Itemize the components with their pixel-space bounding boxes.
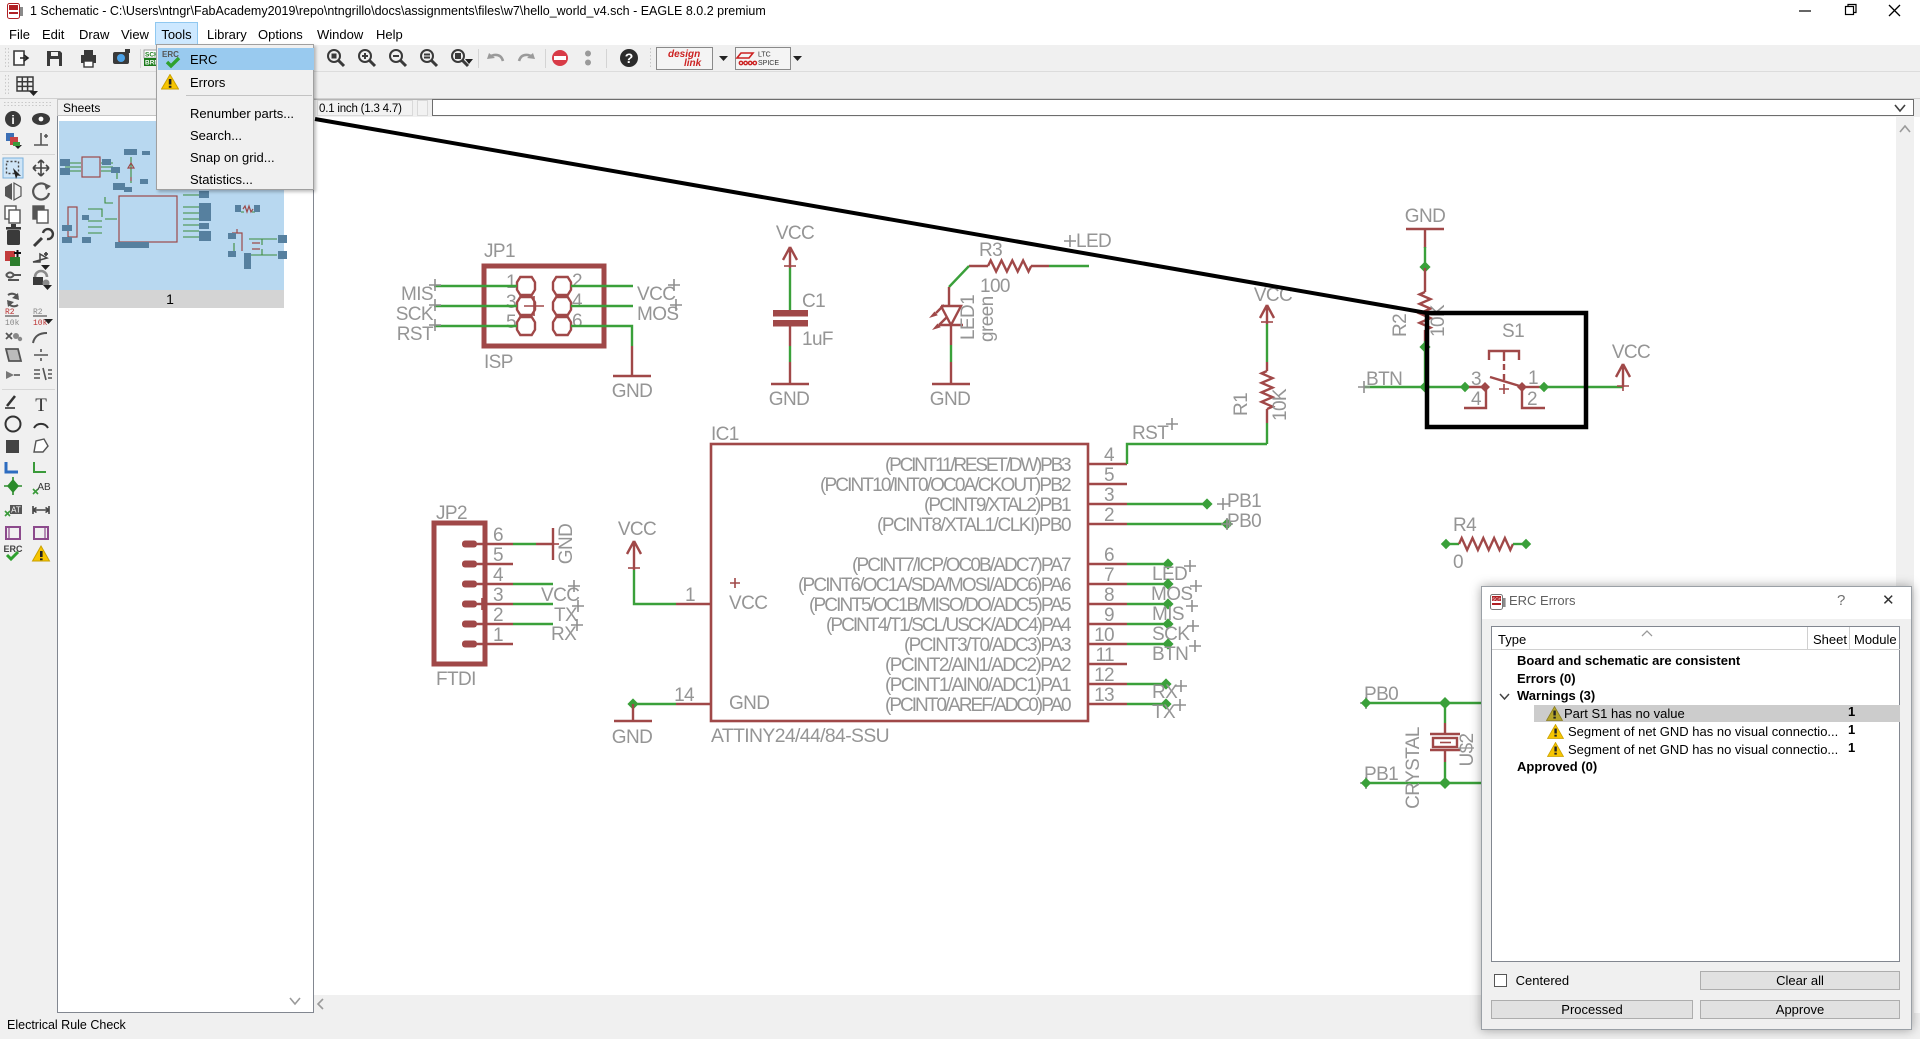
resistor R1 with VCC (1231, 285, 1292, 444)
svg-text:(PCINT5/OC1B/MISO/DO/ADC5)PA5: (PCINT5/OC1B/MISO/DO/ADC5)PA5 (809, 595, 1071, 616)
r14 line / text (5, 396, 15, 408)
label MOS (1151, 580, 1202, 605)
JP1 origin cross (524, 296, 544, 316)
wire PB1 net (pin3) (1127, 503, 1207, 505)
junction BTN (1162, 638, 1173, 649)
svg-text:10K: 10K (1428, 304, 1449, 337)
svg-text:VCC: VCC (776, 223, 814, 244)
svg-text:R3: R3 (979, 240, 1002, 261)
svg-text:SCK: SCK (396, 304, 434, 325)
r4 mirror / rotate (5, 183, 21, 200)
svg-text:4: 4 (1104, 445, 1115, 466)
IC U1: IC1 ATTINY24/44/84-SSU (674, 424, 1127, 747)
wire SCK net (pin9) (1127, 623, 1168, 625)
wire R2 to BTN net (1424, 341, 1426, 387)
svg-text:MIS: MIS (401, 284, 433, 305)
svg-text:4: 4 (493, 565, 504, 586)
svg-text:RX: RX (551, 624, 577, 645)
wire MOS net (pin7) (1127, 583, 1168, 585)
r15 circle / arc (6, 417, 21, 432)
open (14, 51, 28, 65)
sch/brd (144, 50, 159, 67)
junction PB0/crystal (1439, 697, 1451, 709)
svg-text:R2: R2 (1390, 314, 1411, 337)
svg-text:(PCINT2/AIN1/ADC2)PA2: (PCINT2/AIN1/ADC2)PA2 (885, 655, 1071, 676)
svg-text:CRYSTAL: CRYSTAL (1403, 727, 1424, 809)
junction MIS (1162, 598, 1173, 609)
label RST (net) (1132, 418, 1178, 444)
r11 smash / miter (6, 333, 22, 341)
svg-text:6: 6 (572, 311, 582, 332)
svg-text:GND: GND (729, 693, 769, 714)
svg-text:4: 4 (572, 291, 583, 312)
ground GND (LED1) (930, 362, 970, 410)
svg-text:BTN: BTN (1366, 369, 1402, 390)
junction TX (1160, 698, 1171, 709)
svg-text:13: 13 (1094, 685, 1114, 706)
wire R3 left to LED1 (949, 266, 969, 287)
svg-text:BTN: BTN (1152, 644, 1188, 665)
VCC symbol (IC1 pin1) (618, 519, 656, 570)
IC1 pin 14 stub (676, 703, 711, 705)
junction LED (1162, 558, 1173, 569)
annotation line (315, 119, 1427, 313)
LED LED1 (929, 287, 998, 345)
svg-text:2: 2 (493, 605, 503, 626)
svg-text:ISP: ISP (484, 352, 513, 373)
junction PB1 left (1361, 778, 1371, 788)
label LED (net) (1064, 231, 1111, 252)
r19 attribute / dimension (5, 505, 22, 516)
JP1 pin 6 pad (553, 317, 571, 335)
junction RX (1160, 678, 1171, 689)
ground GND (JP1) (612, 346, 652, 402)
junction PB1/crystal (1439, 777, 1451, 789)
svg-text:R1: R1 (1231, 393, 1252, 416)
wire PB0 net (1366, 702, 1481, 704)
LTC SPICE button (736, 48, 791, 70)
svg-text:MOS: MOS (637, 304, 678, 325)
svg-text:0: 0 (1453, 552, 1463, 573)
label RST (397, 319, 441, 345)
wire R3 right to LED net (1049, 265, 1089, 267)
help (620, 49, 638, 67)
svg-text:GND: GND (612, 381, 652, 402)
connector JP2 FTDI (434, 503, 513, 690)
resistor R4 (1441, 515, 1531, 573)
label RX (pin12) (1152, 680, 1187, 703)
wire S1 to VCC (1548, 386, 1623, 388)
S1 left contact (1480, 382, 1490, 392)
r8 pinswap / lock (6, 273, 21, 281)
svg-text:9: 9 (1104, 605, 1114, 626)
svg-text:2: 2 (1527, 389, 1537, 410)
r13 invoke / eqn (6, 371, 20, 379)
junction PB1 (1201, 498, 1212, 509)
stop (552, 50, 568, 66)
wire BTN net (pin10) (1127, 643, 1168, 645)
svg-text:PB1: PB1 (1227, 491, 1261, 512)
junction (IC1 pin14 gnd) (627, 698, 638, 709)
r3 select (highlighted) / move (3, 158, 23, 178)
undo/redo (487, 53, 535, 61)
junction SCK (1162, 618, 1173, 629)
svg-text:JP1: JP1 (484, 241, 515, 262)
sheets panel scroll down arrow (284, 992, 306, 1010)
zoom icons (328, 50, 468, 66)
svg-text:GND: GND (1405, 206, 1445, 227)
label MOS (637, 299, 682, 325)
svg-text:R4: R4 (1453, 515, 1477, 536)
ground GND (C1) (769, 362, 809, 410)
IC1 left internal labels (730, 578, 740, 588)
wire RST net (pin4 to R1) (1127, 444, 1267, 464)
svg-text:S1: S1 (1502, 321, 1524, 342)
svg-text:3: 3 (506, 292, 516, 313)
IC1 pin 1 stub (676, 603, 711, 605)
svg-text:LED1: LED1 (958, 295, 979, 340)
label PB1 (1217, 491, 1261, 512)
wire VCC to C1 (789, 268, 791, 310)
label SCK (396, 299, 441, 325)
svg-text:GND: GND (556, 524, 577, 564)
wire JP2 pin4 to VCC label (513, 583, 553, 585)
svg-text:(PCINT1/AIN0/ADC1)PA1: (PCINT1/AIN0/ADC1)PA1 (885, 675, 1071, 696)
label BTN (net) (1358, 369, 1402, 393)
svg-text:C1: C1 (802, 291, 825, 312)
svg-text:10: 10 (1094, 625, 1114, 646)
wire JP1 pin2 to VCC label (571, 285, 633, 287)
r17 bus / net (6, 462, 18, 472)
wire VCC to IC1 pin1 (634, 570, 676, 604)
r16 rect / polygon (6, 440, 19, 453)
label TX (pin13) (1152, 699, 1186, 723)
capacitor C1 group: VCC symbol (776, 223, 814, 268)
JP1 pin 1 pad (517, 277, 535, 295)
svg-text:RST: RST (397, 324, 434, 345)
svg-text:SCH: SCH (1492, 596, 1502, 601)
power VCC (S1) (1612, 342, 1650, 391)
wire crystal bottom (1444, 762, 1446, 783)
image/camera (113, 49, 130, 64)
annotation rectangle (around S1) (1427, 313, 1586, 427)
S1 pin 1 connection (1539, 382, 1549, 392)
IC1 right pin stubs 4,5,3,2,6..13 (1088, 464, 1127, 704)
svg-text:3: 3 (1104, 485, 1114, 506)
crystal U$2 group (1360, 684, 1481, 809)
svg-text:(PCINT3/T0/ADC3)PA3: (PCINT3/T0/ADC3)PA3 (904, 635, 1071, 656)
junction (R2 bottom) (1419, 341, 1430, 352)
svg-text:PB0: PB0 (1227, 511, 1261, 532)
IC1 body (711, 444, 1088, 721)
wire GND to IC1 pin14 (633, 703, 676, 705)
r20 frame / frame2 (6, 527, 20, 539)
r5 copy / paste (5, 206, 20, 223)
r1 info / eye (5, 111, 21, 127)
label MIS (401, 279, 441, 305)
wire TX net (pin13) (1127, 703, 1166, 705)
JP1 pin 5 pad (517, 317, 535, 335)
svg-text:(PCINT6/OC1A/SDA/MOSI/ADC6)PA6: (PCINT6/OC1A/SDA/MOSI/ADC6)PA6 (798, 575, 1071, 596)
r12 split / optimize (6, 349, 21, 361)
junction (GND-R2) (1419, 261, 1430, 272)
svg-text:ERC: ERC (162, 50, 179, 59)
JP1 pin 4 pad (553, 297, 571, 315)
wire GND to R2 (1424, 247, 1426, 268)
wire PB0 net (pin2) (1127, 523, 1227, 525)
junction PB0 left (1361, 698, 1371, 708)
svg-text:5: 5 (506, 312, 516, 333)
JP1 pin 2 pad (553, 277, 571, 295)
wire JP2 pin6 to GND (513, 543, 536, 545)
wire JP2 pin3 to TX label (513, 603, 553, 605)
wire BTN net horizontal (1364, 386, 1461, 388)
svg-text:VCC: VCC (618, 519, 656, 540)
r10 name / value (5, 308, 20, 328)
svg-text:GND: GND (769, 389, 809, 410)
svg-text:VCC: VCC (637, 284, 675, 305)
JP2 body (434, 523, 485, 664)
wire VCC to R1 (1266, 324, 1268, 362)
svg-text:LED: LED (1076, 231, 1111, 252)
svg-text:10K: 10K (1270, 388, 1291, 421)
label PB0 (1221, 511, 1261, 532)
svg-text:100: 100 (980, 276, 1010, 297)
JP2 pin flags (462, 541, 477, 548)
label TX (JP2) (554, 600, 584, 626)
svg-text:6: 6 (1104, 545, 1114, 566)
svg-text:(PCINT7/ICP/OC0B/ADC7)PA7: (PCINT7/ICP/OC0B/ADC7)PA7 (852, 555, 1071, 576)
r21 ERC / errors (3, 544, 23, 559)
wire MIS to JP1 pin1 (434, 285, 517, 287)
label LED (pin6) (1152, 560, 1196, 585)
svg-text:1: 1 (506, 272, 516, 293)
r9 replace (7, 293, 19, 307)
print (81, 50, 96, 67)
svg-text:2: 2 (572, 271, 582, 292)
R1 body (1262, 362, 1273, 423)
JP1 body (484, 266, 604, 346)
switch S1 (1460, 321, 1549, 410)
wire SCK to JP1 pin3 (434, 305, 517, 307)
svg-text:3: 3 (493, 585, 503, 606)
svg-text:14: 14 (674, 685, 695, 706)
svg-text:(PCINT11/RESET/DW)PB3: (PCINT11/RESET/DW)PB3 (885, 455, 1071, 476)
JP1 pin 3 pad (517, 297, 535, 315)
capacitor C1 (773, 291, 833, 350)
svg-text:1: 1 (1528, 368, 1538, 389)
svg-text:5: 5 (1104, 465, 1114, 486)
svg-text:VCC: VCC (729, 593, 767, 614)
svg-text:(PCINT10/INT0/OC0A/CKOUT)PB2: (PCINT10/INT0/OC0A/CKOUT)PB2 (820, 475, 1071, 496)
design link button (657, 48, 713, 70)
svg-text:2: 2 (1104, 505, 1114, 526)
svg-text:3: 3 (1471, 369, 1481, 390)
S1 plunger (1489, 351, 1519, 361)
r18 junction / label (4, 477, 22, 495)
svg-text:1: 1 (493, 625, 503, 646)
svg-text:(PCINT8/XTAL1/CLKI)PB0: (PCINT8/XTAL1/CLKI)PB0 (877, 515, 1071, 536)
save (47, 51, 62, 66)
wire LED1 to GND (950, 345, 952, 362)
r6 trash / wrench (6, 224, 21, 245)
dots (585, 51, 591, 66)
svg-text:(PCINT0/AREF/ADC0)PA0: (PCINT0/AREF/ADC0)PA0 (885, 695, 1071, 716)
svg-text:8: 8 (1104, 585, 1114, 606)
ground GND (JP2, rotated) (536, 524, 577, 564)
wire PB1 net (1366, 782, 1481, 784)
JP2 origin cross (470, 598, 486, 610)
svg-text:6: 6 (493, 525, 503, 546)
wire C1 to GND (789, 346, 791, 362)
label SCK (1152, 620, 1199, 645)
crystal U$2 body (1430, 723, 1460, 762)
wire RST to JP1 pin5 (434, 325, 517, 327)
ground GND (IC1) (612, 704, 652, 748)
svg-text:11: 11 (1095, 645, 1114, 666)
wire LED net (pin6) (1127, 563, 1168, 565)
svg-text:7: 7 (1104, 565, 1114, 586)
resistor R2 with GND (1390, 206, 1449, 387)
svg-text:TX: TX (554, 605, 578, 626)
svg-text:(PCINT9/XTAL2)PB1: (PCINT9/XTAL2)PB1 (924, 495, 1071, 516)
r2 layers / mark (6, 133, 22, 149)
S1 right contact (1517, 382, 1527, 392)
svg-text:4: 4 (1471, 389, 1482, 410)
wire JP1 pin4 to MOS label (571, 305, 633, 307)
svg-text:GND: GND (612, 727, 652, 748)
svg-text:VCC: VCC (1612, 342, 1650, 363)
svg-text:1uF: 1uF (802, 329, 833, 350)
S1 pin 3 connection (1460, 382, 1470, 392)
svg-text:(PCINT4/T1/SCL/USCK/ADC4)PA4: (PCINT4/T1/SCL/USCK/ADC4)PA4 (826, 615, 1072, 636)
wire crystal top (1444, 703, 1446, 723)
junction MOS (1162, 578, 1173, 589)
svg-text:U$2: U$2 (1457, 733, 1478, 766)
label MIS (1152, 600, 1198, 625)
svg-text:12: 12 (1094, 665, 1114, 686)
svg-text:MOS: MOS (1151, 584, 1192, 605)
r7 add / gateswap (5, 250, 21, 266)
sheet thumbnail (58, 117, 314, 1013)
wire MIS net (pin8) (1127, 603, 1168, 605)
wire JP1 pin6 to GND (571, 326, 632, 346)
JP2 pin stubs (477, 544, 513, 644)
svg-text:1: 1 (685, 585, 695, 606)
label RX (JP2) (551, 619, 583, 645)
S1 actuator arm (1490, 377, 1523, 387)
LED1 light arrows (936, 305, 947, 325)
wire R1 to RST net (1266, 423, 1268, 444)
svg-text:green: green (977, 296, 998, 342)
R2 body (1420, 268, 1431, 341)
junction PB0 (1221, 518, 1232, 529)
wire JP2 pin2 to RX label (513, 623, 553, 625)
svg-text:ATTINY24/44/84-SSU: ATTINY24/44/84-SSU (711, 726, 889, 747)
junction (BTN/R2) (1419, 381, 1430, 392)
label VCC (JP2) (541, 580, 580, 606)
svg-text:RST: RST (1132, 423, 1169, 444)
svg-text:GND: GND (930, 389, 970, 410)
svg-text:JP2: JP2 (436, 503, 467, 524)
label BTN (pin10) (1152, 640, 1201, 665)
svg-text:TX: TX (1152, 702, 1176, 723)
wire RX net (pin12) (1127, 683, 1166, 685)
label VCC (JP1) (637, 279, 680, 305)
svg-text:FTDI: FTDI (436, 669, 476, 690)
resistor R3 (969, 240, 1049, 297)
connector JP1 (484, 241, 604, 373)
svg-text:5: 5 (493, 545, 503, 566)
svg-text:IC1: IC1 (711, 424, 739, 445)
